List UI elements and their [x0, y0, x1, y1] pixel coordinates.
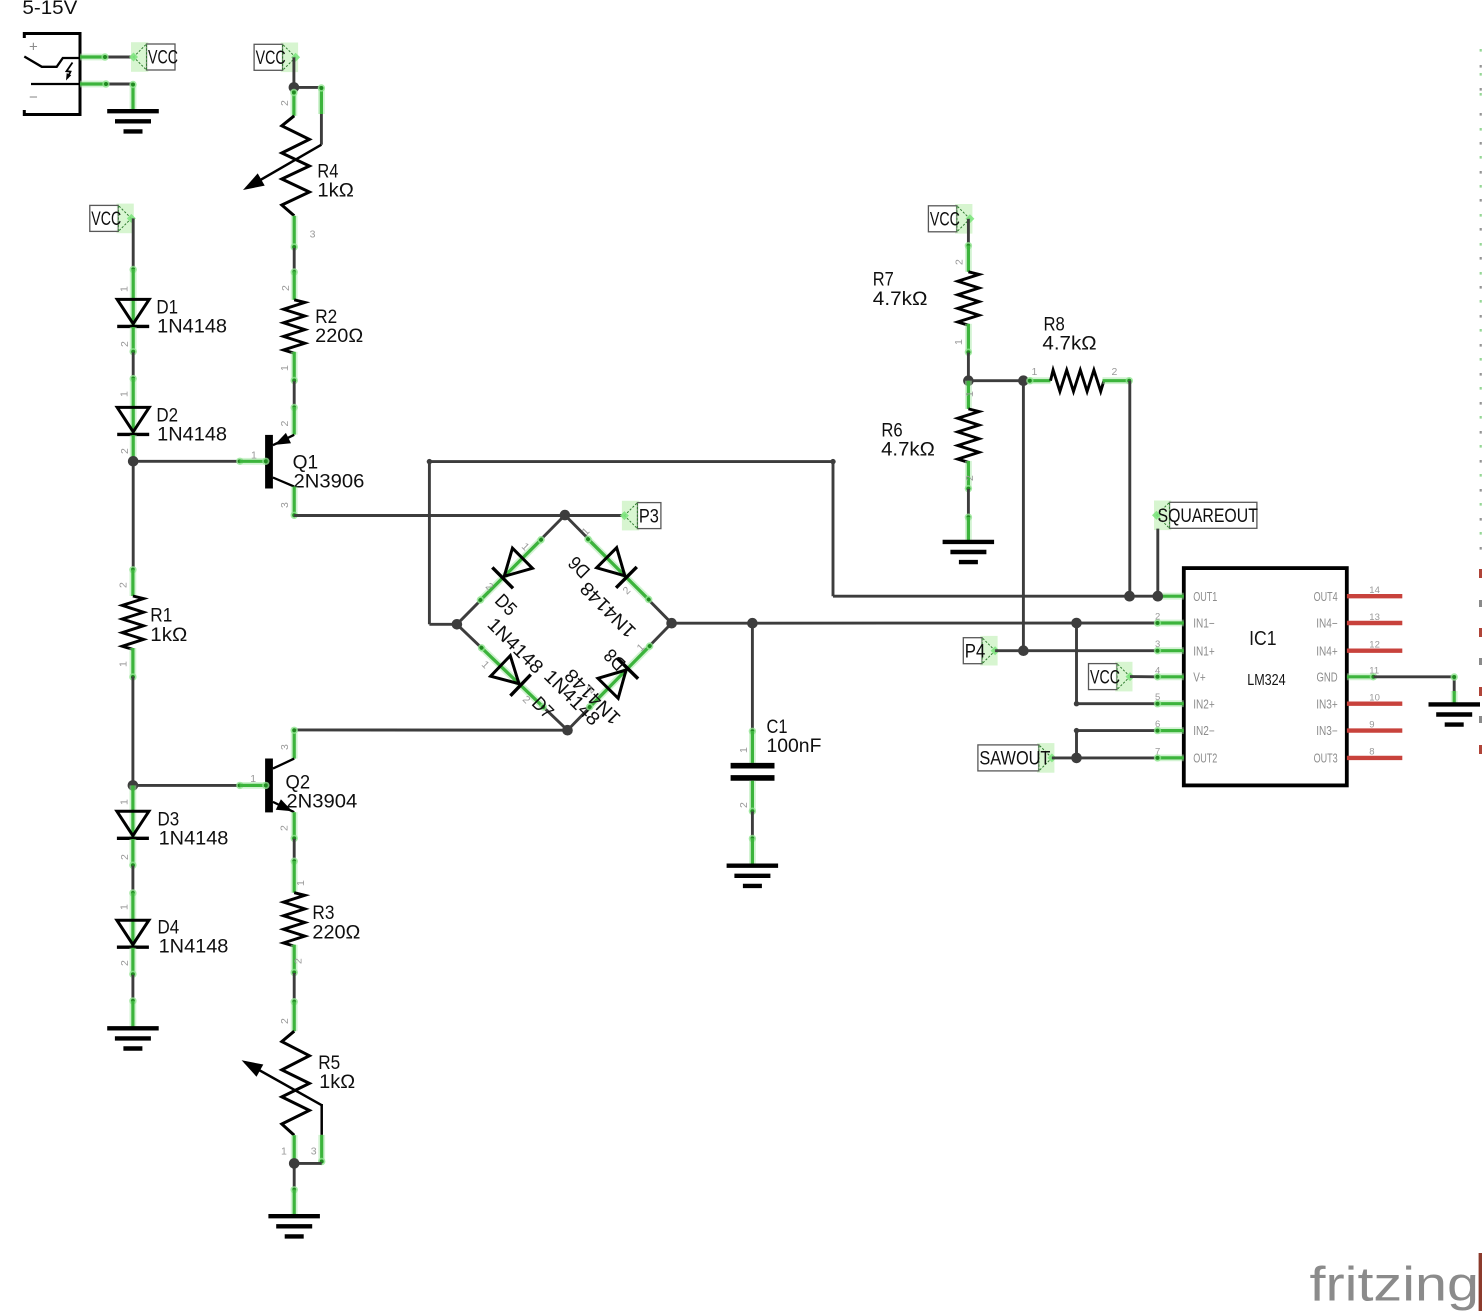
wire R6 to ground [965, 489, 972, 542]
wire D4 to ground [129, 948, 136, 1029]
flag P4 [963, 636, 999, 666]
svg-text:8: 8 [1369, 747, 1374, 758]
svg-text:R4: R4 [317, 161, 338, 182]
svg-text:IN4−: IN4− [1316, 617, 1338, 631]
svg-text:D3: D3 [158, 809, 180, 830]
R1 pin1 wire stub [129, 648, 136, 681]
ground (C1) [727, 866, 779, 886]
node bridge top junction [560, 510, 571, 521]
ground (left column) [107, 1028, 159, 1048]
wire VCC flag to node R4TOP [292, 57, 295, 87]
wire node B to D3 [129, 785, 136, 811]
node SAWOUT junction [1071, 753, 1082, 764]
wire node A to Q1 base [133, 458, 265, 465]
svg-text:3: 3 [310, 229, 316, 241]
svg-text:1N4148: 1N4148 [159, 937, 229, 958]
wire D1 to D2 [130, 327, 137, 407]
diode D6 [575, 526, 662, 612]
IC1 left pin stub IN1+ (pin 3) [1154, 647, 1184, 654]
flag VCC (R4) [254, 43, 300, 73]
IC1 left pin stub IN2- (pin 6) [1154, 727, 1184, 734]
svg-text:IC1: IC1 [1249, 628, 1276, 650]
node OUT1 junction (R8) [1124, 591, 1135, 602]
wire node to R4 wiper tap [294, 84, 325, 144]
ground (R5) [268, 1216, 320, 1236]
wire R7 to node C [967, 353, 970, 381]
IC1 right pin stub OUT3 (pin 8) [1347, 756, 1402, 760]
wire bridge right to C1 [749, 623, 756, 763]
node bridge bottom junction [562, 725, 573, 736]
svg-text:14: 14 [1369, 585, 1380, 596]
diode D1 [117, 299, 149, 326]
R4 pin3 wire stub [291, 216, 298, 251]
flag SAWOUT [978, 743, 1057, 773]
svg-text:10: 10 [1369, 693, 1380, 704]
svg-text:OUT3: OUT3 [1314, 752, 1338, 766]
svg-text:2: 2 [1155, 612, 1160, 623]
wire P4 to IN1+ [995, 649, 1156, 652]
svg-text:OUT4: OUT4 [1314, 590, 1338, 604]
potentiometer R5 [242, 1031, 322, 1135]
svg-text:VCC: VCC [256, 48, 286, 69]
wire bridge edge T-L [457, 515, 565, 624]
wire VCC to V+ [1130, 675, 1156, 678]
svg-text:1kΩ: 1kΩ [319, 1072, 355, 1093]
IC1 GND pin stub [1347, 673, 1377, 680]
resistor R8 [1051, 370, 1104, 391]
svg-text:1: 1 [119, 286, 131, 292]
svg-text:SQUAREOUT: SQUAREOUT [1158, 506, 1259, 527]
svg-text:IN2−: IN2− [1193, 724, 1215, 738]
svg-text:4.7kΩ: 4.7kΩ [881, 440, 935, 461]
svg-text:VCC: VCC [148, 48, 178, 69]
flag VCC (R7) [928, 204, 974, 234]
wire R8 to OUT1 [1128, 381, 1131, 597]
svg-text:3: 3 [279, 744, 291, 750]
svg-text:LM324: LM324 [1247, 672, 1286, 689]
wire R4 to R2 [291, 248, 298, 300]
Q2 emitter wire stub [291, 812, 298, 842]
svg-text:2: 2 [964, 475, 976, 481]
svg-text:R2: R2 [315, 307, 337, 328]
svg-text:1: 1 [1032, 366, 1038, 378]
transistor Q1 2N3906 [262, 433, 294, 489]
wire jack minus to ground [80, 80, 137, 111]
IC1 left pin stub IN2+ (pin 5) [1154, 700, 1184, 707]
svg-text:2: 2 [119, 448, 131, 454]
svg-text:220Ω: 220Ω [312, 922, 360, 943]
resistor R6 [958, 409, 979, 462]
svg-text:OUT2: OUT2 [1193, 752, 1217, 766]
svg-text:2: 2 [119, 960, 131, 966]
R8 pin1 wire stub [1026, 377, 1050, 384]
node P4 junction [1018, 645, 1029, 656]
svg-text:R1: R1 [150, 606, 172, 627]
wire jack plus to VCC flag [80, 53, 134, 60]
wire R5 pin1 to pin3 [294, 1162, 322, 1165]
svg-text:4.7kΩ: 4.7kΩ [1042, 334, 1096, 355]
node OUT1 junction overlay [1124, 591, 1135, 602]
diode D2 [117, 407, 149, 434]
svg-text:Q2: Q2 [286, 772, 311, 793]
IC1 right pin stub IN3+ (pin 10) [1347, 702, 1402, 706]
svg-text:V+: V+ [1193, 670, 1206, 684]
svg-text:R5: R5 [318, 1053, 340, 1074]
wire bridge edge T-R [565, 515, 672, 623]
svg-text:1: 1 [119, 904, 131, 910]
svg-text:IN3+: IN3+ [1316, 697, 1338, 711]
IC1 left pin stub OUT1 (pin 1) [1154, 593, 1184, 600]
svg-text:D2: D2 [156, 406, 178, 427]
svg-text:VCC: VCC [930, 210, 960, 231]
wire bridge left to OUT1 (corner path) [427, 459, 1158, 624]
svg-text:4.7kΩ: 4.7kΩ [873, 289, 928, 310]
diode D3 [117, 811, 149, 838]
svg-text:3: 3 [311, 1146, 317, 1158]
R2 pin1 wire stub [291, 352, 298, 384]
svg-text:P4: P4 [965, 641, 986, 662]
svg-text:2: 2 [280, 285, 292, 291]
svg-text:1: 1 [281, 1146, 287, 1158]
ground (R6) [943, 542, 995, 562]
svg-text:2: 2 [119, 341, 131, 347]
svg-text:−: − [29, 89, 38, 106]
svg-text:9: 9 [1369, 719, 1374, 730]
wire R3 to R5 [291, 973, 298, 1031]
flag VCC (power jack) [129, 42, 178, 72]
svg-text:D1: D1 [156, 298, 178, 319]
transistor Q2 2N3904 [262, 759, 294, 813]
svg-text:2: 2 [279, 825, 291, 831]
flag VCC (V+) [1089, 662, 1135, 692]
diode D7 [469, 635, 556, 721]
svg-text:2: 2 [279, 1018, 291, 1024]
wire VCC to D1 [130, 218, 137, 299]
svg-text:R6: R6 [881, 421, 902, 442]
resistor R7 [958, 272, 979, 325]
svg-text:1N4148: 1N4148 [157, 425, 227, 446]
diode D5 [467, 527, 554, 613]
node R4TOP junction [289, 82, 300, 93]
R7 pin1 wire stub [965, 324, 972, 356]
svg-text:13: 13 [1369, 612, 1380, 623]
wire SQUAREOUT to OUT1 [1156, 529, 1159, 597]
potentiometer R4 [243, 116, 321, 216]
R6 pin2 wire stub [965, 461, 972, 492]
svg-text:2: 2 [119, 854, 131, 860]
capacitor C1 100nF [731, 766, 775, 778]
svg-text:+: + [29, 39, 38, 56]
wire bridge edge L-B [457, 624, 568, 730]
wire Q1 collector to P3 [294, 514, 624, 517]
svg-text:fritzing: fritzing [1310, 1258, 1480, 1311]
node bridge left junction [452, 619, 463, 630]
wire OUT2 to IN2- [1074, 728, 1156, 758]
R3 pin2 wire stub [291, 945, 298, 977]
wire R5 to ground [291, 1163, 298, 1216]
Q1 collector wire stub [291, 487, 298, 519]
R4 pin2 wire stub [290, 89, 297, 116]
svg-text:2: 2 [279, 421, 291, 427]
ground (IC1) [1429, 704, 1481, 724]
svg-text:1: 1 [119, 391, 131, 397]
clipped content marks (right edge) [1480, 49, 1482, 550]
wire D3 to D4 [129, 839, 136, 920]
IC1 left pin stub OUT2 (pin 7) [1154, 754, 1184, 761]
flag SQUAREOUT [1152, 501, 1258, 531]
diode D4 [117, 920, 149, 947]
R5 pin3 wire stub [318, 1135, 325, 1165]
svg-text:C1: C1 [767, 717, 788, 738]
node bridge right junction [666, 618, 677, 629]
svg-text:2N3906: 2N3906 [294, 471, 365, 492]
resistor R3 [284, 893, 305, 946]
svg-text:P3: P3 [639, 506, 659, 527]
svg-text:5-15V: 5-15V [22, 0, 77, 19]
svg-text:1N4148: 1N4148 [157, 317, 227, 338]
svg-text:100nF: 100nF [767, 736, 822, 757]
node C junction (R7/R6/R8) [963, 375, 974, 386]
svg-text:IN1+: IN1+ [1193, 644, 1215, 658]
svg-text:1: 1 [117, 661, 129, 667]
svg-text:D4: D4 [158, 918, 180, 939]
svg-text:2: 2 [117, 582, 129, 588]
flag VCC (D1 column) [90, 204, 136, 234]
ground (power jack) [107, 111, 159, 131]
svg-text:2: 2 [293, 958, 305, 964]
IC1 right pin stub OUT4 (pin 14) [1347, 594, 1402, 598]
wire GND pin to ground [1374, 673, 1458, 704]
node C1 junction [747, 618, 758, 629]
wire bridge right to IN1- [672, 622, 1156, 625]
svg-text:R8: R8 [1044, 315, 1065, 336]
wire C1 to ground [749, 781, 756, 866]
resistor R1 [122, 596, 143, 649]
svg-text:2: 2 [279, 100, 291, 106]
svg-text:SAWOUT: SAWOUT [979, 749, 1050, 770]
R6 pin1 wire stub [965, 381, 972, 409]
Q2 collector wire stub [291, 727, 298, 759]
node R5 junction [289, 1158, 300, 1169]
svg-text:1: 1 [251, 450, 257, 462]
wire bridge edge B-R [568, 623, 672, 730]
svg-text:R7: R7 [873, 269, 894, 290]
IC1 left pin stub V+ (pin 4) [1154, 673, 1184, 680]
wire bridge bottom to Q2 collector [295, 728, 568, 731]
svg-text:1: 1 [119, 799, 131, 805]
wire R2 to Q1 emitter [291, 381, 298, 434]
flag P3 [620, 501, 661, 531]
node R8 junction [1018, 375, 1029, 386]
svg-text:R3: R3 [312, 903, 334, 924]
svg-text:1: 1 [295, 880, 307, 886]
svg-text:1: 1 [738, 747, 750, 753]
wire R1 to node B [131, 677, 134, 786]
svg-text:GND: GND [1317, 670, 1338, 684]
wire SAWOUT to OUT2 [1052, 756, 1156, 759]
clipped logo strip (right edge) [1479, 569, 1482, 1311]
svg-text:IN4+: IN4+ [1316, 644, 1338, 658]
svg-text:1N4148: 1N4148 [159, 828, 229, 849]
wire Q2 emitter to R3 [291, 839, 298, 893]
svg-text:220Ω: 220Ω [315, 326, 363, 347]
wire VCC to R7 [965, 219, 972, 272]
svg-text:3: 3 [1155, 639, 1160, 650]
svg-text:Q1: Q1 [293, 452, 319, 473]
diode D8 [577, 633, 663, 720]
node B junction (Q2 base) [128, 780, 139, 791]
power jack J1 5-15V [22, 0, 80, 114]
IC1 right pin stub IN4- (pin 13) [1347, 621, 1402, 625]
IC1 right pin stub IN3- (pin 9) [1347, 728, 1402, 732]
svg-text:OUT1: OUT1 [1193, 590, 1217, 604]
svg-text:IN2+: IN2+ [1193, 697, 1215, 711]
svg-text:1: 1 [279, 365, 291, 371]
svg-text:1: 1 [953, 339, 965, 345]
wire D2 to node A [130, 435, 137, 461]
wire node A to R1 [129, 461, 136, 596]
svg-text:3: 3 [279, 502, 291, 508]
svg-text:IN3−: IN3− [1316, 724, 1338, 738]
resistor R2 [284, 300, 305, 353]
svg-text:4: 4 [1155, 665, 1160, 676]
IC1 left pin stub IN1- (pin 2) [1154, 619, 1184, 626]
svg-text:1kΩ: 1kΩ [150, 625, 187, 646]
svg-text:VCC: VCC [91, 209, 121, 230]
svg-text:VCC: VCC [1090, 667, 1120, 688]
svg-text:IN1−: IN1− [1193, 617, 1215, 631]
op-amp IC1 LM324 body [1184, 568, 1347, 785]
svg-text:7: 7 [1155, 746, 1160, 757]
svg-text:12: 12 [1369, 640, 1380, 651]
wire node C to R8 [968, 379, 1030, 382]
svg-text:2N3904: 2N3904 [286, 791, 357, 812]
svg-text:6: 6 [1155, 719, 1160, 730]
node IN1- junction [1071, 618, 1082, 629]
wire node B to Q2 base [133, 782, 265, 789]
R8 pin2 wire stub [1103, 377, 1134, 384]
svg-text:2: 2 [954, 259, 966, 265]
svg-text:1: 1 [964, 391, 976, 397]
svg-text:5: 5 [1155, 692, 1160, 703]
node OUT1 junction (SQUAREOUT) [1153, 591, 1164, 602]
svg-text:1: 1 [250, 773, 256, 785]
wire node R8 to P4 line [1022, 381, 1025, 651]
R5 pin1 wire stub [291, 1135, 298, 1163]
svg-text:2: 2 [1112, 366, 1118, 378]
svg-text:1kΩ: 1kΩ [317, 180, 354, 201]
IC1 right pin stub IN4+ (pin 12) [1347, 649, 1402, 653]
svg-text:2: 2 [738, 802, 750, 808]
node A junction (Q1 base) [128, 456, 139, 467]
wire IN1- to IN2+ [1074, 623, 1156, 706]
